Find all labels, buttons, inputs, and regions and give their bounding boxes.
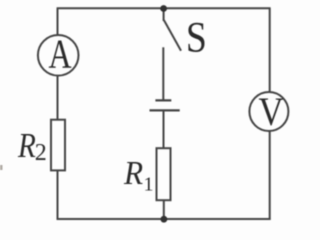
- svg-text:2: 2: [35, 140, 47, 166]
- wire bottom: [57, 218, 271, 220]
- svg-text:A: A: [49, 31, 72, 77]
- svg-text:V: V: [258, 91, 283, 135]
- wire left lower: [57, 170, 59, 220]
- ammeter A1 circle: [38, 35, 79, 76]
- wire switch stub: [163, 8, 165, 21]
- wire R1 to bottom: [163, 200, 165, 219]
- wire left between ammeter and R2: [57, 76, 59, 120]
- wire right upper: [269, 8, 271, 92]
- battery plate short: [155, 99, 171, 101]
- node top junction: [160, 5, 167, 12]
- wire battery to R1: [163, 110, 165, 148]
- wire top: [57, 7, 271, 9]
- wire left upper: [57, 8, 59, 34]
- svg-text:R: R: [123, 155, 143, 192]
- node bottom junction: [161, 216, 168, 223]
- wire right lower: [269, 131, 271, 220]
- svg-text:1: 1: [144, 174, 154, 196]
- resistor R2 body: [51, 120, 65, 171]
- battery plate long: [150, 109, 180, 111]
- resistor R1 body: [157, 148, 171, 200]
- wire switch to battery: [162, 47, 164, 99]
- scan smudge left edge: [0, 165, 3, 170]
- voltmeter V1 circle: [249, 92, 288, 131]
- svg-text:S: S: [186, 13, 207, 61]
- switch S lever: [164, 20, 181, 50]
- svg-text:R: R: [17, 125, 36, 164]
